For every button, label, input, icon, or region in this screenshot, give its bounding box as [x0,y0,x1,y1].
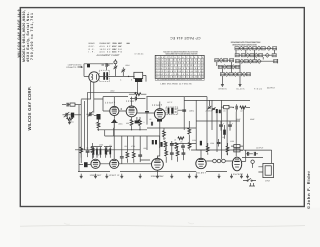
svg-text:D-E: D-E [118,48,123,51]
wire T1 out [178,97,184,130]
trimmer capacitor C2 [121,67,125,76]
svg-text:WILCOX GAY PAGE 14-9: WILCOX GAY PAGE 14-9 [17,9,21,57]
svg-text:50L6GT 245 8 8 250 0 50 245 25: 50L6GT 245 8 8 250 0 50 245 250 8 0 [156,70,204,73]
ground 3 [105,176,108,178]
electrolytic C12 [219,121,225,131]
svg-text:OSC.: OSC. [89,45,95,48]
svg-text:VOL: VOL [96,154,100,157]
tube V3 [154,109,165,120]
bus AVC [103,96,184,98]
bus under right chain [196,149,243,151]
svg-text:12SQ7 160 -1 0 -- 0 9 160 -- 0: 12SQ7 160 -1 0 -- 0 9 160 -- 0 0 [156,64,204,67]
svg-text:455 KC: 455 KC [100,45,112,48]
svg-text:12SA7 250 -8 3 95 0 9 250 95 3: 12SA7 250 -8 3 95 0 9 250 95 3 0 [156,59,204,62]
svg-text:BAND: BAND [89,42,96,45]
svg-text:50L6GT: 50L6GT [196,171,207,174]
osc feedback wire [88,91,138,93]
svg-text:DUMMY ANT.: DUMMY ANT. [100,42,112,45]
wire V2-V3 [137,112,155,114]
svg-text:LOOP ANTENNA: LOOP ANTENNA [68,63,83,66]
svg-text:TUBE P G K S H P G K S V: TUBE P G K S H P G K S V [156,56,204,59]
capacitor C4 [130,97,145,101]
capacitor C21 [181,144,185,151]
svg-text:.05: .05 [149,118,152,121]
antenna section condenser C5 [62,103,81,107]
svg-text:35Z5GT 117 -- 125 -- 0 35 117: 35Z5GT 117 -- 125 -- 0 35 117 -- 125 0 [156,73,204,76]
wire V4-V5 [100,121,114,164]
detector band bus [105,128,197,150]
resistor R17 [234,149,244,152]
cap at bus corner [182,110,186,111]
cap C15 [105,146,109,155]
coupling capacitor C11 [236,104,237,111]
dark pad under V3 [157,119,162,121]
tube V4 12SQ7 [91,159,100,168]
wire drops detail [191,100,222,159]
ground 13 [246,176,249,178]
cathode resistor R4 [130,117,133,130]
heater wires [206,160,232,162]
oscillator coil can (dashed) [99,70,109,81]
padder resistor R3 [97,120,100,131]
cap C23 [151,122,152,126]
gang link wires [79,92,88,171]
ground 11 [230,176,233,178]
svg-text:12SK7: 12SK7 [126,100,137,103]
ground 9 [195,176,198,178]
blob R25 [160,142,162,147]
electrolytic C13 [228,121,234,131]
svg-text:OUTPUT: OUTPUT [267,87,276,90]
antenna top wire [84,64,113,77]
ground 4 [120,176,123,178]
B+ bus right [196,120,240,122]
svg-text:SPKR: SPKR [265,180,271,183]
chassis bus [78,171,227,173]
line cord plug [249,183,255,186]
svg-text:12SK7 250 0 3 95 0 9 250 95 3: 12SK7 250 0 3 95 0 9 250 95 3 0 [156,67,204,70]
svg-text:.006: .006 [143,147,147,150]
screen wire [140,160,157,174]
ground 6 [156,176,159,178]
cap C18 [170,148,174,160]
svg-text:OUTPUT: OUTPUT [256,147,264,150]
ground 8 [188,176,191,178]
tube V7 35Z5 rectifier [232,157,241,171]
heater circle 3 [222,159,226,163]
voltage table grid [155,55,204,78]
cathode resistor R14 [165,143,168,163]
tuning fan blob under V1 [111,116,118,128]
svg-text:35Z5GT: 35Z5GT [233,173,244,176]
B+ bus top [184,97,250,101]
svg-text:BLACK: BLACK [237,88,246,91]
volume control R11 [90,143,94,159]
coupling cap C16 [120,150,124,164]
ground 1 [80,176,83,178]
tube V2 [126,106,137,117]
svg-text:CP PAGE 414 EC: CP PAGE 414 EC [170,36,201,40]
tuning gang C6 [63,112,82,118]
bus row2 bottom [97,129,147,131]
svg-text:1200: 1200 [230,140,234,143]
svg-text:LINE VOLTAGE 117 VOLTS: LINE VOLTAGE 117 VOLTS [161,82,193,85]
wire top chain [84,75,135,77]
svg-text:150: 150 [163,137,166,140]
svg-text:300: 300 [126,122,129,125]
filter resistor R7 [221,105,233,108]
output transformer T2 [242,150,272,163]
svg-text:.01: .01 [223,110,226,113]
IF transformer T1 (dashed can) [166,107,178,114]
svg-text:ALIGNMENT CHART: ALIGNMENT CHART [97,54,121,57]
resistor R21 above V7 [206,143,209,155]
svg-text:700,000 to 731,761: 700,000 to 731,761 [30,13,34,60]
svg-text:600 KC: 600 KC [112,51,118,54]
svg-text:.002: .002 [124,145,128,148]
capacitor C22 [217,139,221,147]
blob cluster under chain [216,109,221,113]
ground 2 [94,176,97,178]
svg-text:GREEN: GREEN [219,88,228,91]
svg-text:12SK7 250 0 3 95 0 9 250 95 3: 12SK7 250 0 3 95 0 9 250 95 3 0 [156,61,204,64]
svg-text:I.F.: I.F. [89,51,95,54]
tube V5 [110,159,119,168]
ground 12 [240,176,243,178]
grid resistor R1 [129,93,147,96]
resistor R20 [188,143,191,151]
svg-text:12SK7: 12SK7 [152,104,163,107]
cap above osc can [102,63,110,70]
antenna coil blob [87,64,90,68]
wire into V6 [119,163,152,165]
svg-text:WILCOX GAY CORP.: WILCOX GAY CORP. [27,87,32,131]
screen resistor R5 [139,117,142,130]
bus row3 top [75,149,140,151]
cap C17 [138,150,142,162]
det in resistor R10 [80,147,83,158]
if grid cluster above V5 [104,147,112,158]
svg-text:©John F. Rider: ©John F. Rider [306,171,311,209]
resistor R24 [163,128,166,140]
cap blob C24 [223,125,226,139]
svg-text:35L6GT 245 8 8 250 0 35 245 25: 35L6GT 245 8 8 250 0 35 245 250 8 0 [156,76,204,79]
resistor R9 [240,106,250,109]
socket diagram ground 2 [239,85,242,87]
svg-text:CONNECTS: CONNECTS [66,66,77,69]
ground 5 [139,176,142,178]
oscillator gang C7 [87,111,101,119]
tube stems to bus [114,97,160,126]
socket diagram mesh [235,47,239,50]
pilot lamp [251,160,254,168]
svg-text:2MEG: 2MEG [189,110,195,113]
mid bus wire [170,142,196,144]
junction node [128,76,129,77]
bypass capacitor C8 [145,97,149,125]
loop antenna L1 [89,72,99,82]
svg-text:VIEWED FROM BOTTOM OF CHASSIS: VIEWED FROM BOTTOM OF CHASSIS [232,43,258,46]
speaker [258,163,273,177]
capacitor C20 [170,141,174,148]
svg-text:R.F.: R.F. [89,48,95,51]
V3 long stem [157,126,159,158]
diode load cluster above V4 [91,147,102,158]
svg-text:12SA7: 12SA7 [105,101,116,104]
socket diagram ground 1 [221,85,224,87]
resistor R2 [67,118,73,121]
svg-text:1620 KC: 1620 KC [112,48,118,51]
svg-text:.05: .05 [86,147,89,150]
cap C14 [86,151,90,157]
wire rect to speaker [242,150,246,161]
resistor R16 [231,145,243,148]
svg-text:A-B-C: A-B-C [118,45,123,48]
svg-text:.25: .25 [95,122,98,125]
svg-text:.0004: .0004 [125,64,130,67]
resistor R23 under AVC [188,121,191,145]
svg-text:455 KC: 455 KC [100,51,112,54]
svg-text:SIGNAL: SIGNAL [112,42,118,45]
resistor R13 [132,148,135,163]
svg-text:600 KC: 600 KC [112,45,118,48]
ground 10 [218,176,221,178]
svg-text:.05: .05 [180,141,183,144]
resistor R15 [176,146,179,162]
svg-text:.0001: .0001 [118,123,123,126]
ground under R2 [68,120,71,124]
svg-text:.02: .02 [240,110,243,113]
tube V1 [110,106,119,115]
grid resistor R12 [126,148,129,163]
svg-text:FIELD: FIELD [254,88,263,91]
svg-text:.1: .1 [143,121,145,124]
resistor R19 [175,143,178,151]
svg-text:1620 KC: 1620 KC [100,48,112,51]
svg-text:12SK7 IF: 12SK7 IF [109,174,121,177]
junction dot chain [233,107,234,108]
tube V7 50L6GT output [196,157,206,169]
drops from right chain [196,100,243,156]
svg-text:1ST IF: 1ST IF [167,101,173,104]
svg-text:F-G: F-G [118,51,122,54]
tube V6 12SK7 [152,157,164,170]
row1 dash [127,42,130,44]
ground 7 [170,176,173,178]
trimmer capacitor C1 [114,59,118,76]
resistor R18 [164,141,167,150]
cap blob left of V4 [79,162,91,167]
trimmer pair C10b [212,107,216,110]
svg-text:.0002: .0002 [110,90,115,93]
wire loop antenna down [81,81,103,112]
svg-text:.25MEG: .25MEG [205,110,212,113]
blob pair [152,140,157,144]
trimmer pair C10a [208,100,212,109]
svg-text:10: 10 [174,139,176,142]
resistor R26 [178,137,184,140]
svg-text:.05: .05 [222,136,225,139]
svg-text:I.F. 455 KC: I.F. 455 KC [135,52,145,55]
power switch S1 [243,178,256,181]
svg-text:.01: .01 [109,144,112,147]
wire V1-V2 [103,97,126,111]
heater circle 2 [217,159,221,163]
dark pad under V2 [135,117,140,123]
resistor R22 [226,143,229,155]
tone cap C19 [182,149,186,160]
junction dots row2 [131,129,132,130]
oscillator coil T-osc [134,72,146,92]
heater circle 1 [213,159,217,163]
V7 stem blob [200,141,202,146]
